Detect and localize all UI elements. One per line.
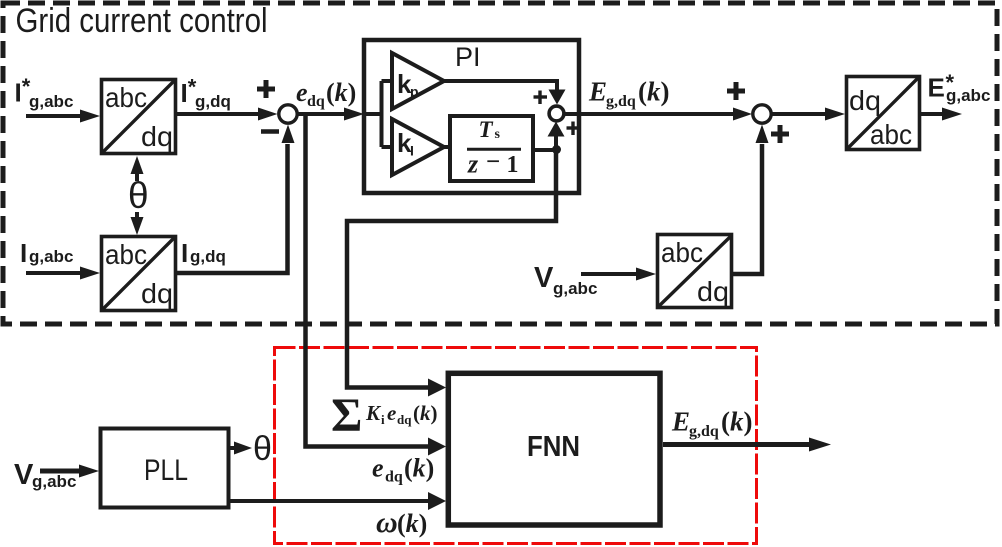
svg-text:ω: ω <box>376 506 398 539</box>
plus sign at J3 bottom right <box>771 125 789 143</box>
PLL block <box>101 429 229 508</box>
svg-text:PI: PI <box>455 42 481 72</box>
plus sign at J1 <box>257 80 275 98</box>
block abc/dq U1 <box>102 80 176 154</box>
svg-text:FNN: FNN <box>527 431 580 463</box>
svg-text:abc: abc <box>105 239 147 270</box>
wire: J3 to dq/abc block5 <box>773 112 828 116</box>
svg-text:(k): (k) <box>404 454 434 483</box>
svg-text:dq: dq <box>397 412 412 427</box>
block abc/dq U2 <box>102 237 176 311</box>
svg-text:θ: θ <box>253 430 272 468</box>
svg-text:dq: dq <box>849 85 881 116</box>
svg-text:θ: θ <box>128 175 149 216</box>
svg-text:I: I <box>20 238 27 268</box>
svg-text:abc: abc <box>661 237 703 268</box>
svg-text:s: s <box>495 127 501 142</box>
outer dashed box: Grid current control boundary <box>3 3 997 324</box>
theta coupling between block1 and block2 <box>128 156 149 235</box>
block abc/dq U4 <box>658 235 732 308</box>
svg-text:dq: dq <box>307 93 325 110</box>
svg-text:g,dq: g,dq <box>195 92 231 111</box>
svg-text:−: − <box>486 149 500 176</box>
svg-text:(k): (k) <box>397 509 427 538</box>
svg-text:g,abc: g,abc <box>946 86 990 105</box>
red dashed box: FNN boundary <box>275 348 757 544</box>
wire: kp output to PI junction (down arrow) <box>444 81 557 92</box>
wire: J1 to PI block <box>299 112 349 116</box>
svg-text:I: I <box>181 238 188 268</box>
svg-text:g,dq: g,dq <box>689 423 719 440</box>
svg-text:V: V <box>534 262 554 294</box>
svg-text:(k): (k) <box>413 401 438 425</box>
svg-text:g,dq: g,dq <box>606 93 636 110</box>
wire: PI input splitter <box>364 81 392 147</box>
amplifier kp triangle <box>392 53 444 109</box>
wire: FNN output arrow <box>663 442 812 447</box>
svg-text:E: E <box>588 77 607 107</box>
svg-text:V: V <box>14 459 34 491</box>
wire: PLL omega output to FNN <box>230 499 428 503</box>
plus sign at J3 top <box>727 82 745 100</box>
svg-text:E: E <box>928 73 945 103</box>
FNN block <box>448 373 660 525</box>
wire: ki output to Ts block <box>444 145 449 149</box>
svg-text:g,abc: g,abc <box>32 472 76 491</box>
PI box <box>364 40 579 193</box>
svg-text:abc: abc <box>870 119 912 150</box>
svg-text:g,abc: g,abc <box>29 247 73 266</box>
svg-text:dq: dq <box>697 276 729 307</box>
svg-text:I: I <box>410 143 414 159</box>
wire: block5 output arrow <box>921 112 944 116</box>
svg-text:dq: dq <box>385 469 403 486</box>
svg-text:i: i <box>381 412 385 427</box>
minus sign at J1 <box>261 129 279 134</box>
plus sign at PI junction bottom <box>567 122 581 136</box>
svg-text:dq: dq <box>141 278 173 309</box>
wire: V input arrow to block4 <box>581 272 640 276</box>
wire: V input arrow to PLL <box>40 469 83 474</box>
svg-text:g,abc: g,abc <box>29 92 73 111</box>
svg-text:dq: dq <box>141 121 173 152</box>
svg-text:e: e <box>372 454 384 483</box>
wire: block4 output up to junction J3 <box>733 144 762 274</box>
svg-text:PLL: PLL <box>144 454 188 487</box>
svg-text:e: e <box>387 401 396 425</box>
svg-text:(k): (k) <box>638 77 670 107</box>
wire: input arrow to abc/dq block1 <box>26 114 84 118</box>
svg-text:g,abc: g,abc <box>553 279 597 298</box>
wire: e_dq feedback down to FNN input <box>306 114 429 447</box>
svg-text:z: z <box>467 150 479 179</box>
svg-text:K: K <box>365 401 382 425</box>
svg-text:1: 1 <box>507 152 519 178</box>
Ts/(z-1) block <box>450 116 533 181</box>
junction J3 summing circle <box>753 105 771 123</box>
wire: block2 output feedback to junction J1 minus input <box>177 144 288 273</box>
svg-text:Σ: Σ <box>331 389 362 442</box>
wire: input arrow to abc/dq block2 <box>26 271 84 275</box>
node dot <box>552 145 561 154</box>
junction J1 summing circle <box>279 105 297 123</box>
wire: Ts output to PI junction (up arrow) with node dot <box>533 148 556 152</box>
svg-text:E: E <box>671 407 690 437</box>
wire: sum Ki e feedback from node to FNN input <box>347 151 556 388</box>
theta output arrow from PLL <box>230 446 238 450</box>
svg-text:e: e <box>296 78 308 107</box>
svg-text:(k): (k) <box>721 407 753 437</box>
svg-text:abc: abc <box>105 82 147 113</box>
svg-text:p: p <box>410 84 419 100</box>
plus sign at PI junction top <box>534 91 548 105</box>
wire: block1 to junction J1 <box>177 112 262 116</box>
svg-text:g,dq: g,dq <box>190 247 226 266</box>
block dq/abc U5 <box>847 77 920 151</box>
svg-text:(k): (k) <box>326 78 356 107</box>
svg-text:T: T <box>479 117 494 142</box>
wire: PI output to junction J3 <box>564 112 735 116</box>
amplifier ki triangle <box>392 119 444 175</box>
svg-text:Grid current control: Grid current control <box>16 2 268 40</box>
PI junction summing circle <box>549 106 564 121</box>
